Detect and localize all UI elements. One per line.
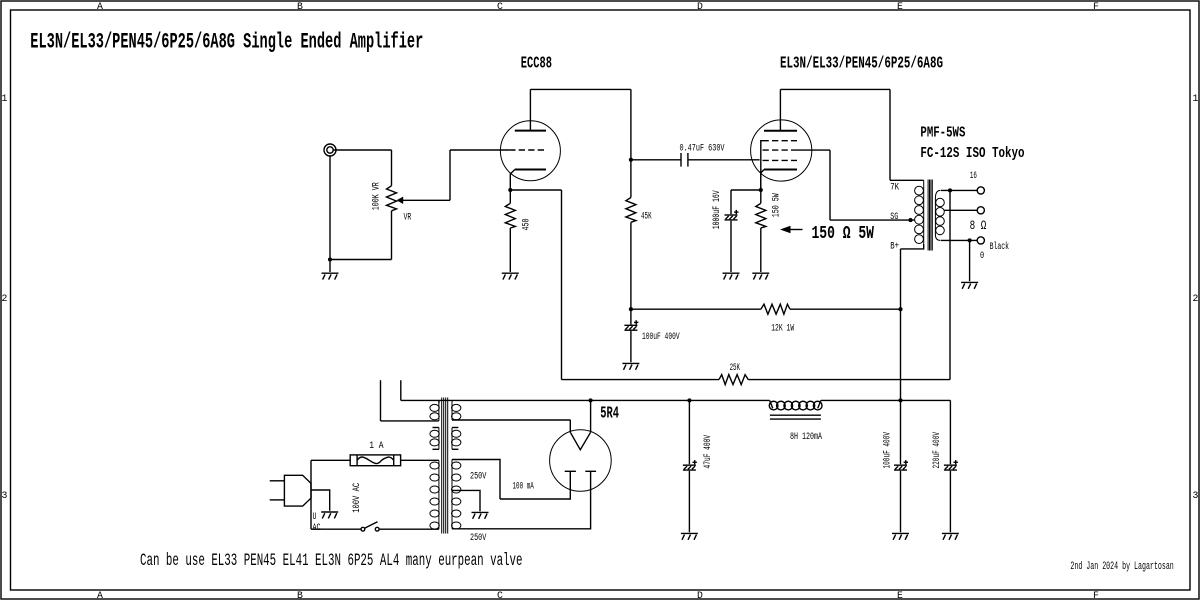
wire jack to pot top — [333, 149, 391, 151]
fuse F1 — [350, 455, 400, 466]
wire bus to switch — [311, 528, 361, 530]
junction 16 tap — [948, 188, 952, 192]
junction ECC88 cathode — [508, 188, 512, 192]
T2 primary bottom lead B+ — [901, 244, 924, 249]
svg-text:C: C — [497, 590, 503, 600]
svg-text:C: C — [497, 1, 503, 12]
svg-text:8 Ω: 8 Ω — [970, 218, 987, 233]
svg-text:B: B — [297, 1, 303, 12]
svg-text:3: 3 — [1193, 490, 1199, 501]
svg-text:2: 2 — [1193, 293, 1199, 304]
ground C2 — [622, 363, 639, 369]
svg-text:250V: 250V — [470, 471, 486, 482]
wire 12K to B+ — [790, 308, 901, 310]
ground C4 — [681, 533, 698, 539]
svg-text:1 A: 1 A — [369, 440, 383, 451]
wire switch to T1 primary bottom — [379, 528, 439, 530]
choke core bars — [770, 414, 821, 416]
ground C6 — [942, 533, 959, 539]
wire NFB rail right — [748, 379, 950, 381]
wire 8 ohm tap — [944, 209, 977, 211]
U3 filament lead left — [569, 420, 571, 433]
wire cathode to NFB riser — [510, 189, 561, 191]
svg-text:450: 450 — [521, 218, 532, 230]
svg-text:ECC88: ECC88 — [521, 55, 552, 74]
svg-text:D: D — [697, 590, 703, 600]
wire fuse to T1 primary — [401, 459, 439, 461]
AC plug P1 — [270, 480, 285, 482]
svg-text:3: 3 — [2, 490, 8, 501]
tube U2 EL3N envelope — [751, 120, 812, 181]
ground HV center tap — [472, 512, 489, 518]
tube U1 ECC88 envelope — [500, 121, 560, 181]
wire NFB riser down — [561, 190, 563, 380]
junction 47uF node — [687, 398, 691, 402]
transformer T2 primary winding — [923, 180, 925, 244]
wire main B+ rail — [401, 399, 770, 401]
wire U2 anode top horizontal — [780, 88, 890, 90]
svg-text:100 mA: 100 mA — [513, 481, 534, 492]
U2 anode plate — [764, 130, 797, 132]
svg-text:SG: SG — [890, 211, 898, 222]
ground R2 — [502, 273, 519, 279]
junction SG tap — [908, 218, 912, 222]
svg-text:Can be use EL33 PEN45 EL41 EL3: Can be use EL33 PEN45 EL41 EL3N 6P25 AL4… — [140, 551, 523, 571]
T1 winding aux right — [451, 428, 453, 450]
transformer T1 HV top lead — [452, 460, 500, 500]
wire bus to fuse — [311, 459, 350, 461]
wire cathode to bypass cap — [731, 189, 761, 191]
T1 primary winding 100V — [438, 460, 440, 529]
T1 winding aux left — [438, 428, 440, 450]
wire junction to ground — [329, 260, 331, 273]
resistor R2 450 — [509, 190, 511, 203]
U2 suppressor grid dashed — [763, 140, 798, 142]
svg-text:1: 1 — [2, 93, 8, 104]
U2 screen grid dashed — [763, 149, 798, 151]
svg-text:PMF-5WS: PMF-5WS — [920, 126, 965, 142]
wire plug earth stub — [311, 490, 330, 511]
wire anode drop to coupling node — [630, 89, 632, 159]
T1 HV center tap — [452, 490, 480, 511]
wire NFB rail left — [562, 379, 720, 381]
ground C5 — [892, 533, 909, 539]
U1 anode plate — [515, 130, 546, 132]
ground C3 — [723, 273, 740, 279]
junction jack ground bus — [328, 257, 332, 261]
wire anode top horizontal — [530, 88, 631, 90]
U3 anode bar left — [565, 470, 576, 472]
U2 screen grid lead — [797, 149, 830, 151]
wire 0 tap — [941, 239, 977, 241]
svg-text:250V: 250V — [470, 532, 486, 543]
potentiometer wiper arrow — [397, 197, 404, 204]
transformer T1 heater stub left — [380, 380, 382, 421]
svg-text:100uF 400V: 100uF 400V — [642, 331, 680, 342]
wire screen drop — [829, 150, 831, 220]
wire riser to ECC88 grid — [450, 149, 509, 151]
svg-text:1000uF 16V: 1000uF 16V — [711, 190, 722, 229]
svg-text:0.47uF 630V: 0.47uF 630V — [680, 142, 725, 153]
tube U3 5R4 envelope — [550, 430, 612, 492]
svg-text:EL3N/EL33/PEN45/6P25/6A8G Sin: EL3N/EL33/PEN45/6P25/6A8G Single Ended A… — [30, 29, 423, 54]
wire 16 tap NFB drop — [949, 190, 951, 379]
U3 right anode lead — [452, 471, 591, 529]
terminal 8 ohm — [977, 207, 984, 214]
svg-text:220uF 400V: 220uF 400V — [931, 432, 942, 469]
wire jack down to ground bus — [329, 156, 331, 260]
resistor R4 12K 1W — [761, 304, 790, 314]
T1 winding 6.3V left — [438, 404, 440, 421]
T1 winding 5V rectifier — [451, 400, 453, 420]
junction B+ rail — [898, 398, 902, 402]
U2 suppressor tie to cathode — [761, 141, 763, 190]
svg-text:150 5W: 150 5W — [770, 193, 781, 217]
svg-text:2: 2 — [2, 293, 8, 304]
transformer T2 core — [927, 180, 929, 251]
transformer T1 core — [441, 398, 443, 534]
resistor R5 150 5W — [760, 190, 762, 203]
svg-text:F: F — [1093, 1, 1099, 12]
U3 anode bar right — [585, 470, 596, 472]
T2 secondary top lead — [935, 190, 940, 198]
wire B+ drop — [900, 249, 902, 401]
svg-text:A: A — [97, 590, 103, 600]
wire 16 tap — [941, 189, 977, 191]
arrow pointer to R5 — [780, 226, 791, 233]
svg-text:EL3N/EL33/PEN45/6P25/6A8G: EL3N/EL33/PEN45/6P25/6A8G — [780, 55, 943, 74]
wire cap to EL3N grid — [688, 159, 760, 161]
junction 45K bottom node — [629, 307, 633, 311]
resistor R3 45K — [630, 160, 632, 198]
svg-text:E: E — [897, 590, 903, 600]
svg-text:VR: VR — [404, 211, 412, 222]
choke L1 8H 120mA — [769, 400, 822, 410]
svg-text:1: 1 — [1193, 93, 1199, 104]
svg-text:5R4: 5R4 — [600, 403, 619, 422]
wire riser vertical — [449, 150, 451, 200]
resistor R6 25K — [719, 375, 748, 385]
svg-text:E: E — [897, 1, 903, 12]
capacitor C6 220uF 400V — [949, 400, 951, 464]
T1 heater stub right — [400, 380, 402, 400]
wire node to 12K — [631, 308, 761, 310]
svg-text:B+: B+ — [890, 241, 899, 252]
U2 anode lead — [779, 89, 781, 130]
capacitor C2 100uF 400V — [630, 309, 632, 324]
sheet row numbers right — [1193, 93, 1199, 501]
T1 HV winding — [451, 460, 453, 529]
junction coupling node — [629, 158, 633, 162]
svg-text:100V AC: 100V AC — [351, 483, 362, 513]
switch SW1 — [361, 527, 365, 531]
T2 secondary bottom lead — [935, 235, 940, 241]
wire screen to SG tap — [830, 219, 915, 221]
svg-text:F: F — [1093, 590, 1099, 600]
svg-text:16: 16 — [970, 170, 977, 181]
ground input — [322, 273, 339, 279]
svg-text:B: B — [297, 590, 303, 600]
wire anode drop to OPT 7K — [889, 89, 891, 180]
ground speaker common — [961, 282, 978, 288]
wire pot bottom to junction — [330, 259, 392, 261]
U1 cathode bar — [515, 169, 546, 171]
junction U2 cathode — [759, 188, 763, 192]
U1 anode lead — [529, 89, 531, 130]
terminal 0 Black — [977, 237, 984, 244]
terminal 16 — [977, 187, 984, 194]
svg-text:25K: 25K — [730, 362, 740, 373]
T1 heater stub lead — [381, 420, 439, 422]
U1 cathode hook — [510, 170, 515, 191]
svg-text:150 Ω 5W: 150 Ω 5W — [812, 223, 875, 244]
potentiometer RV1 100K VR — [391, 150, 393, 186]
input jack J1 — [324, 144, 336, 156]
junction 0 tap — [968, 238, 972, 242]
svg-text:U: U — [313, 511, 317, 522]
svg-text:Black: Black — [990, 241, 1009, 252]
svg-text:8H 120mA: 8H 120mA — [790, 431, 822, 442]
T1 5V bottom lead — [452, 419, 570, 421]
junction rectifier output — [589, 398, 593, 402]
sheet column letters bottom — [97, 590, 1099, 600]
sheet row numbers left — [2, 93, 8, 501]
svg-text:FC-12S ISO Tokyo: FC-12S ISO Tokyo — [920, 146, 1024, 162]
capacitor C4 47uF 400V — [688, 400, 690, 464]
svg-text:12K 1W: 12K 1W — [771, 323, 794, 334]
wire plug bus vertical — [310, 460, 312, 529]
wire wiper to grid riser — [403, 199, 450, 201]
sheet column letters top — [97, 1, 1099, 12]
svg-text:47uF 400V: 47uF 400V — [702, 435, 713, 469]
svg-text:D: D — [697, 1, 703, 12]
wire 0 tap to ground — [969, 240, 971, 281]
svg-text:100uF 400V: 100uF 400V — [881, 432, 892, 469]
svg-text:2nd Jan 2024 by Lagartosan: 2nd Jan 2024 by Lagartosan — [1070, 561, 1173, 573]
transformer T2 secondary winding — [934, 198, 936, 235]
U2 cathode hook — [761, 170, 764, 191]
svg-text:0: 0 — [980, 250, 984, 261]
capacitor C5 100uF 400V — [900, 400, 902, 464]
svg-text:A: A — [97, 1, 103, 12]
svg-text:7K: 7K — [890, 181, 899, 192]
U2 control grid dashed — [763, 159, 798, 161]
wire to OPT primary top — [890, 179, 924, 181]
junction B+ 12K — [898, 307, 902, 311]
U3 left anode lead — [500, 471, 570, 499]
ground plug earth — [321, 512, 338, 518]
U3 filament lead right to rail — [590, 400, 592, 432]
U2 cathode bar — [764, 169, 797, 171]
svg-text:45K: 45K — [641, 211, 652, 222]
capacitor C1 0.47uF 630V — [680, 153, 682, 167]
svg-text:AC: AC — [313, 522, 321, 533]
ground R5 — [752, 273, 769, 279]
wire coupling node to cap — [631, 159, 681, 161]
U3 filament V — [570, 432, 590, 449]
capacitor C3 1000uF 16V — [730, 190, 732, 214]
svg-text:100K VR: 100K VR — [370, 182, 381, 210]
T1 winding 6.3V left lead top — [438, 400, 440, 403]
U1 grid dashed — [509, 149, 545, 151]
